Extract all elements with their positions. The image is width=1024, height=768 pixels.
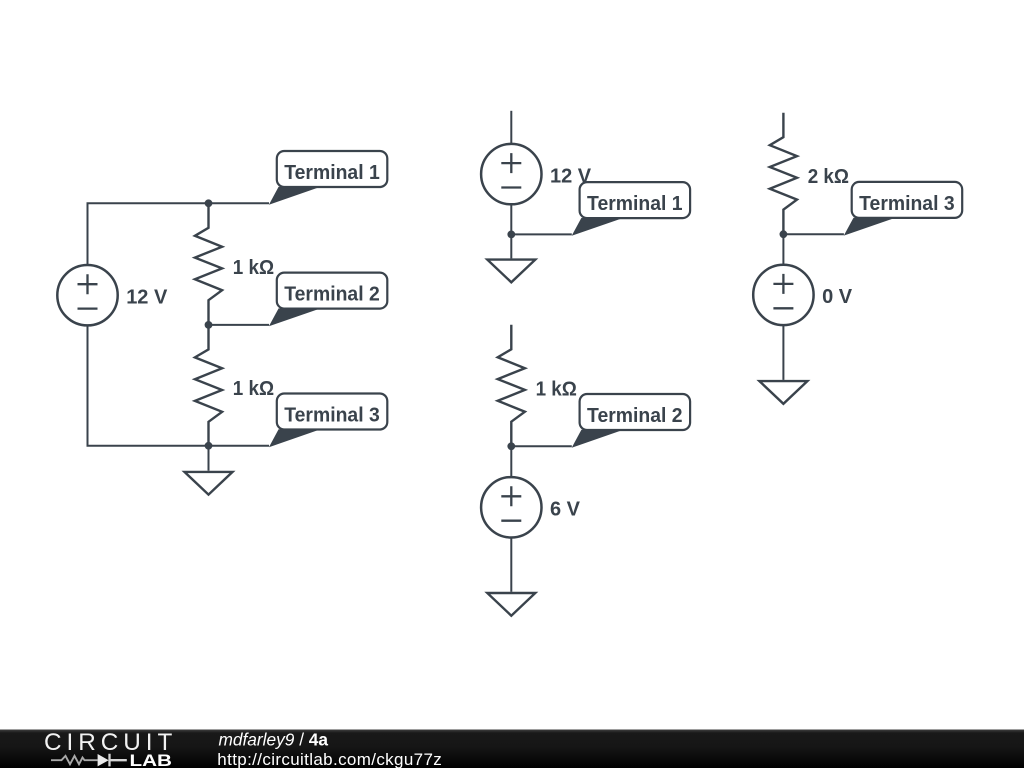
wire V1 top lead up bbox=[87, 203, 89, 264]
value label 1 k&#937; of R1 bbox=[233, 257, 274, 279]
wire top rail to Terminal 1 bbox=[87, 202, 270, 204]
ground GND mid-bottom bbox=[487, 593, 535, 616]
svg-text:12 V: 12 V bbox=[126, 287, 168, 309]
footer bar background bbox=[0, 730, 1024, 768]
terminal flag F1 (Terminal 1) bbox=[269, 151, 387, 205]
svg-text:mdfarley9 / 4a: mdfarley9 / 4a bbox=[219, 730, 329, 750]
wire V3 to ground bbox=[510, 538, 512, 592]
svg-text:1 kΩ: 1 kΩ bbox=[233, 257, 274, 279]
voltage source V3 bbox=[481, 477, 541, 537]
logo text LAB bbox=[130, 752, 173, 768]
voltage source V1 bbox=[57, 265, 117, 325]
svg-text:Terminal 1: Terminal 1 bbox=[284, 162, 380, 184]
node D (V2 minus) bbox=[507, 231, 515, 239]
CircuitLab logo text CIRCUIT bbox=[44, 729, 172, 756]
ground GND right bbox=[759, 381, 807, 404]
node C (junction R2/V1/ground/Terminal3) bbox=[205, 442, 213, 450]
wire node to Terminal 1 flag bbox=[511, 233, 572, 235]
wire node to V4 bbox=[782, 234, 784, 265]
resistor R1 1k top bbox=[195, 203, 222, 325]
svg-text:Terminal 2: Terminal 2 bbox=[587, 405, 683, 427]
terminal flag F6 (Terminal 3) bbox=[844, 182, 962, 236]
voltage source V4 bbox=[753, 265, 813, 325]
svg-text:LAB: LAB bbox=[130, 752, 173, 768]
wire V1 bottom lead down bbox=[87, 326, 89, 446]
wire V2 to ground through node bbox=[510, 204, 512, 258]
terminal flag F3 (Terminal 3) bbox=[269, 394, 387, 448]
terminal flag F5 (Terminal 2) bbox=[572, 394, 690, 448]
wire bottom rail to Terminal 3 bbox=[87, 445, 270, 447]
wire node2 to Terminal 2 bbox=[209, 324, 270, 326]
resistor R3 1k bbox=[498, 325, 525, 447]
wire node to Terminal 2 flag bbox=[511, 445, 572, 447]
svg-text:1 kΩ: 1 kΩ bbox=[233, 378, 274, 400]
resistor R4 2k bbox=[770, 113, 797, 235]
resistor R2 1k bottom bbox=[195, 325, 222, 446]
ground GND mid-top bbox=[487, 260, 535, 283]
svg-text:0 V: 0 V bbox=[822, 286, 853, 308]
svg-text:http://circuitlab.com/ckgu77z: http://circuitlab.com/ckgu77z bbox=[217, 750, 441, 768]
value label 0 V of V4 bbox=[822, 286, 853, 308]
author line: mdfarley9 / 4a bbox=[219, 730, 329, 750]
svg-text:Terminal 3: Terminal 3 bbox=[284, 405, 380, 427]
value label 12 V of V1 bbox=[126, 287, 168, 309]
ground GND left bbox=[185, 472, 233, 495]
logo resistor zigzag bbox=[51, 756, 98, 764]
wire V4 to ground bbox=[782, 325, 784, 380]
wire node to Terminal 3 flag bbox=[783, 233, 844, 235]
node E (R3/V3/Terminal2) bbox=[507, 442, 515, 450]
svg-text:1 kΩ: 1 kΩ bbox=[536, 378, 577, 400]
value label 1 k&#937; of R3 bbox=[536, 378, 577, 400]
value label 2 k&#937; of R4 bbox=[808, 166, 849, 188]
node B (junction R1/R2/Terminal2) bbox=[205, 321, 213, 329]
url line bbox=[217, 750, 441, 768]
value label 12 V of V2 bbox=[550, 165, 592, 187]
logo diode bbox=[98, 754, 127, 767]
terminal flag F4 (Terminal 1) bbox=[572, 182, 690, 236]
svg-text:2 kΩ: 2 kΩ bbox=[808, 166, 849, 188]
wire V2 top stub bbox=[510, 111, 512, 144]
svg-text:Terminal 2: Terminal 2 bbox=[284, 284, 380, 306]
wire node to V3 bbox=[510, 446, 512, 477]
node F (R4/V4/Terminal3) bbox=[780, 230, 788, 238]
value label 6 V of V3 bbox=[550, 499, 581, 521]
svg-text:6 V: 6 V bbox=[550, 499, 581, 521]
node A (junction V1/R1/Terminal1) bbox=[205, 199, 213, 207]
wire node3 to ground bbox=[208, 446, 210, 471]
svg-text:Terminal 3: Terminal 3 bbox=[859, 193, 955, 215]
svg-text:Terminal 1: Terminal 1 bbox=[587, 193, 683, 215]
value label 1 k&#937; of R2 bbox=[233, 378, 274, 400]
voltage source V2 bbox=[481, 144, 541, 204]
terminal flag F2 (Terminal 2) bbox=[269, 273, 387, 327]
